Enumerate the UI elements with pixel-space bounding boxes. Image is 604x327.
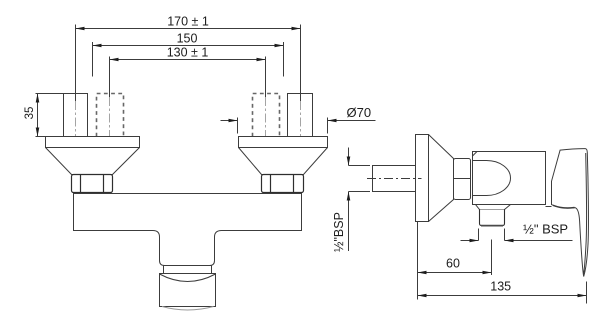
extension line right 170 / centerline right solid leg bbox=[300, 25, 302, 102]
left escutcheon cone bbox=[46, 148, 140, 175]
svg-text:170 ± 1: 170 ± 1 bbox=[167, 15, 209, 29]
label ½"BSP (inlet) leader arrows bbox=[332, 148, 350, 252]
handle cap and lever outline bbox=[552, 149, 589, 277]
svg-text:60: 60 bbox=[446, 257, 460, 271]
dimension 135 bbox=[418, 280, 587, 298]
right hex nut bbox=[262, 175, 304, 193]
svg-text:150: 150 bbox=[177, 32, 198, 46]
handle tip extension line bbox=[586, 282, 588, 304]
svg-text:½"BSP: ½"BSP bbox=[332, 212, 346, 252]
outlet ring band bbox=[164, 266, 212, 274]
handle lever inner edge line bbox=[584, 153, 587, 274]
hex nut (side) bbox=[454, 159, 471, 200]
outlet nut (side) bbox=[480, 210, 505, 226]
outlet centerline extension bbox=[491, 240, 493, 276]
right wall flange bbox=[239, 137, 328, 148]
svg-text:½" BSP: ½" BSP bbox=[523, 222, 568, 237]
extension line left 170 / centerline left solid leg bbox=[75, 25, 77, 102]
extension line left 150 bbox=[92, 42, 94, 77]
dimension 170±1 line bbox=[76, 15, 301, 31]
handle cap underside shadow bbox=[553, 205, 575, 208]
dimension 60 bbox=[418, 257, 492, 275]
outlet extension lines (side) bbox=[478, 229, 480, 241]
dimension 35 (leg height) bbox=[24, 94, 64, 137]
svg-text:35: 35 bbox=[24, 107, 36, 120]
body top-left chamfer (side) bbox=[473, 152, 478, 157]
escutcheon cone (side) bbox=[429, 135, 454, 222]
dimension 130±1 line bbox=[110, 46, 266, 62]
mixer body (front) with center protrusion bbox=[74, 194, 302, 266]
inlet pipe thread extension ticks bbox=[349, 165, 371, 167]
left wall flange bbox=[46, 137, 140, 148]
cartridge dome (side) bbox=[473, 161, 511, 196]
left inlet leg (solid position) bbox=[64, 94, 88, 137]
extension line right 150 bbox=[283, 42, 285, 77]
inlet pipe (side) bbox=[373, 166, 416, 192]
dimension 150 line bbox=[93, 32, 284, 48]
svg-text:135: 135 bbox=[490, 280, 511, 294]
right inlet leg (solid position) bbox=[288, 94, 313, 137]
left hex nut bbox=[72, 175, 113, 193]
right escutcheon cone bbox=[239, 148, 328, 175]
extension line left 130 / centerline left dashed leg bbox=[109, 57, 111, 98]
wall plane extension line (left of side view) bbox=[417, 222, 419, 300]
escutcheon disk (side) bbox=[416, 135, 429, 222]
svg-text:Ø70: Ø70 bbox=[347, 105, 372, 120]
outlet aerator cylinder bbox=[160, 274, 216, 311]
left inlet leg (dashed alternate position) bbox=[97, 94, 124, 137]
handle escutcheon ledge bbox=[546, 206, 552, 208]
svg-text:130 ± 1: 130 ± 1 bbox=[167, 46, 209, 60]
outlet flare (side) bbox=[476, 205, 511, 210]
extension line right 130 / centerline right dashed leg bbox=[265, 57, 267, 98]
label ½" BSP (outlet) bbox=[461, 222, 573, 243]
inlet pipe centerline bbox=[367, 178, 422, 180]
dimension Ø70 (flange diameter leader) bbox=[221, 105, 376, 134]
right inlet leg (dashed alternate position) bbox=[253, 94, 280, 137]
mixer body (side) bbox=[473, 152, 546, 205]
